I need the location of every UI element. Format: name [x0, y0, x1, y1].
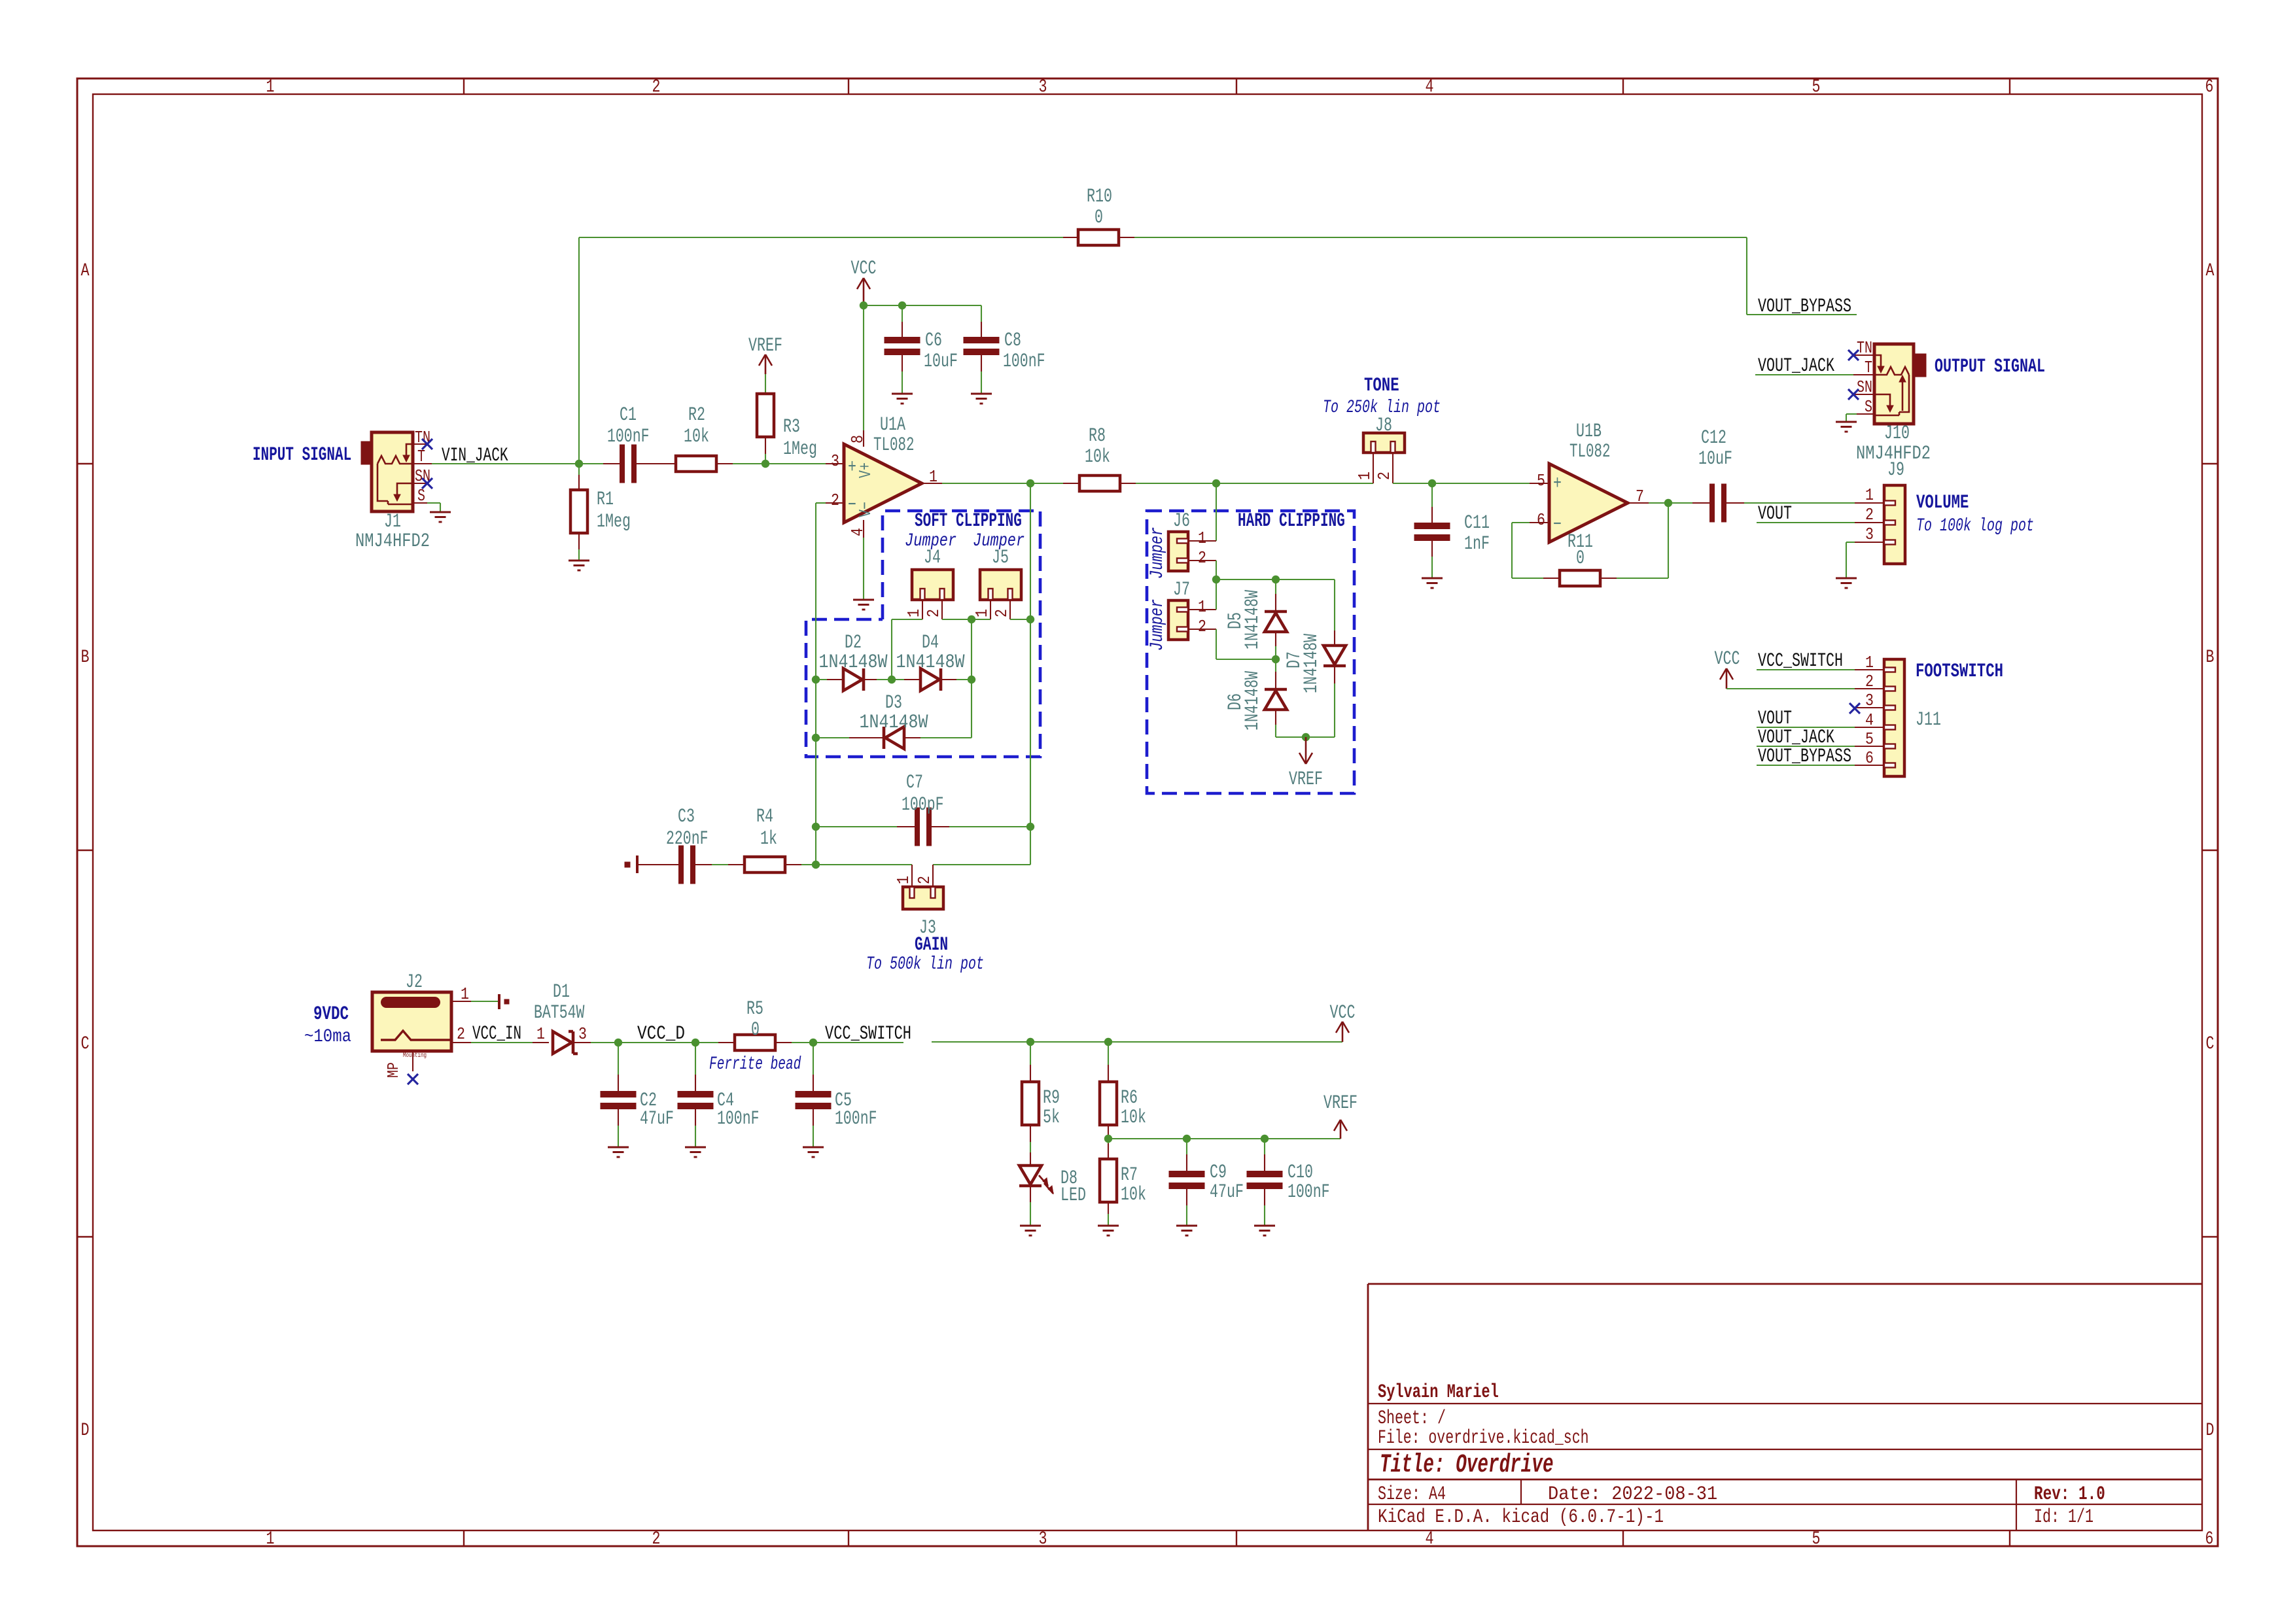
- wire R10 net top left: [579, 237, 1063, 238]
- wire J7.2 to D5/D6 mid: [1216, 629, 1217, 659]
- svg-text:R7: R7: [1121, 1164, 1138, 1186]
- resistor R11: [1543, 578, 1560, 579]
- wire VIN to R10 riser: [578, 237, 580, 464]
- junction C6 tap: [898, 302, 906, 309]
- wire J8.2 to U1B+: [1393, 483, 1530, 484]
- ground at C5: [803, 1147, 824, 1149]
- junction VCC stem: [860, 302, 867, 309]
- svg-text:R4: R4: [756, 806, 773, 828]
- svg-text:J1: J1: [384, 511, 401, 533]
- svg-text:47uF: 47uF: [1210, 1181, 1244, 1203]
- capacitor C4: [695, 1043, 696, 1075]
- svg-text:Title: Overdrive: Title: Overdrive: [1380, 1451, 1554, 1480]
- svg-text:1N4148W: 1N4148W: [860, 712, 928, 734]
- resistor R10: [1063, 237, 1078, 238]
- wire J7.1 up: [1216, 579, 1217, 610]
- wire J6.2 down: [1216, 561, 1217, 579]
- svg-text:VCC_SWITCH: VCC_SWITCH: [825, 1023, 911, 1045]
- wire VCC_SWITCH stub (J11.1): [1757, 669, 1855, 670]
- svg-text:6: 6: [1865, 748, 1874, 768]
- svg-text:5: 5: [1812, 1529, 1821, 1549]
- svg-text:5: 5: [1865, 729, 1874, 749]
- wire D2-D4 mid: [877, 679, 904, 680]
- junction C4 tap: [692, 1039, 699, 1046]
- svg-text:To 100k log pot: To 100k log pot: [1916, 516, 2034, 536]
- wire J1.S to ground: [427, 502, 440, 504]
- junction hard-clip tap: [1212, 479, 1220, 487]
- svg-text:2: 2: [992, 609, 1011, 617]
- svg-text:Size: A4: Size: A4: [1378, 1483, 1446, 1506]
- svg-text:D: D: [81, 1421, 90, 1441]
- wire VCC rail (LED/VREF): [932, 1041, 1342, 1043]
- svg-text:Mounting: Mounting: [403, 1052, 427, 1060]
- capacitor C9: [1186, 1139, 1187, 1154]
- resistor R3: [757, 394, 774, 437]
- junction R9 tap: [1026, 1038, 1034, 1046]
- svg-text:R1: R1: [597, 489, 614, 511]
- svg-text:1Meg: 1Meg: [597, 511, 631, 533]
- no-connect J11.3: [1849, 703, 1860, 714]
- svg-text:J6: J6: [1173, 510, 1190, 532]
- ground at C4: [685, 1147, 706, 1149]
- ground at C11: [1422, 578, 1443, 579]
- svg-text:VIN_JACK: VIN_JACK: [442, 445, 508, 467]
- J2 pin 1: [451, 1001, 471, 1002]
- svg-text:1N4148W: 1N4148W: [1242, 590, 1264, 649]
- wire J10.S to ground: [1846, 413, 1857, 415]
- wire U1A out: [942, 483, 1063, 484]
- svg-text:7: 7: [1636, 487, 1644, 506]
- capacitor C5: [813, 1043, 814, 1075]
- connector J11 (FOOTSWITCH): [1884, 659, 1904, 776]
- svg-text:0: 0: [751, 1019, 760, 1041]
- junction VIN_JACK node: [575, 460, 583, 468]
- J10 pin T: [1853, 374, 1874, 375]
- svg-text:1: 1: [266, 1529, 275, 1549]
- svg-text:3: 3: [1865, 525, 1874, 544]
- capacitor C8: [981, 322, 982, 337]
- ground at J9: [1836, 578, 1857, 579]
- svg-text:D4: D4: [922, 632, 939, 654]
- svg-text:Jumper: Jumper: [1147, 527, 1168, 579]
- svg-text:1N4148W: 1N4148W: [1242, 671, 1264, 731]
- ground at R7: [1098, 1225, 1119, 1227]
- svg-text:100nF: 100nF: [1003, 351, 1045, 373]
- svg-text:1Meg: 1Meg: [783, 438, 817, 460]
- svg-text:4: 4: [1426, 1529, 1434, 1549]
- svg-text:3: 3: [1039, 1529, 1047, 1549]
- LED D8: [1030, 1142, 1031, 1152]
- svg-text:R5: R5: [746, 998, 763, 1020]
- junction gain node: [812, 861, 820, 869]
- svg-text:T: T: [1865, 358, 1872, 377]
- svg-text:C9: C9: [1210, 1162, 1227, 1184]
- svg-text:2: 2: [1865, 505, 1874, 525]
- svg-text:~10ma: ~10ma: [304, 1027, 351, 1047]
- svg-text:Sylvain Mariel: Sylvain Mariel: [1378, 1381, 1499, 1404]
- wire VREF to R3: [765, 374, 766, 394]
- svg-text:S: S: [1865, 397, 1872, 417]
- svg-text:D: D: [2206, 1421, 2215, 1441]
- svg-text:NMJ4HFD2: NMJ4HFD2: [1856, 443, 1931, 465]
- wire J4.2 to D4 cathode: [942, 619, 972, 620]
- wire VOUT stub (J11.4): [1757, 727, 1855, 728]
- svg-text:J11: J11: [1916, 709, 1941, 731]
- svg-text:J10: J10: [1884, 423, 1910, 445]
- power symbol VREF (hard clipping): [1305, 737, 1307, 764]
- svg-text:2: 2: [1198, 617, 1206, 636]
- wire R10 net down to VOUT_BYPASS: [1746, 237, 1747, 315]
- svg-text:VOUT_BYPASS: VOUT_BYPASS: [1758, 746, 1851, 768]
- svg-text:SN: SN: [1857, 377, 1872, 397]
- resistor R8: [1063, 483, 1079, 484]
- wire right clip riser: [971, 619, 972, 738]
- wire J9.3 to ground: [1846, 542, 1855, 543]
- ground at C2: [608, 1147, 629, 1149]
- resistor R9: [1030, 1042, 1031, 1065]
- svg-text:B: B: [2206, 648, 2215, 668]
- svg-text:C1: C1: [620, 404, 637, 426]
- wire VCC to J11.2: [1726, 688, 1855, 689]
- svg-text:5: 5: [1537, 471, 1545, 491]
- capacitor C6: [902, 305, 903, 322]
- svg-text:1N4148W: 1N4148W: [896, 651, 965, 674]
- svg-text:A: A: [2206, 261, 2215, 281]
- svg-text:3: 3: [1039, 77, 1047, 97]
- svg-text:C6: C6: [925, 330, 942, 352]
- svg-text:2: 2: [831, 491, 839, 510]
- diode D3 (1N4148W): [816, 737, 849, 738]
- svg-text:1: 1: [1198, 528, 1206, 548]
- svg-text:10k: 10k: [684, 426, 709, 448]
- J2 mounting pin: [412, 1051, 413, 1071]
- ground at U1A pin4: [853, 599, 874, 601]
- resistor R2: [676, 456, 716, 472]
- wire D4 to right riser: [956, 679, 972, 680]
- svg-text:VREF: VREF: [1289, 769, 1323, 791]
- diode D7 (1N4148W): [1334, 579, 1335, 631]
- junction hard mid-left: [1212, 576, 1220, 583]
- svg-text:J7: J7: [1173, 579, 1190, 601]
- junction J5.1 node: [968, 615, 975, 623]
- svg-text:VCC_IN: VCC_IN: [472, 1023, 521, 1045]
- svg-text:MP: MP: [385, 1062, 403, 1078]
- wire J4.1 to D2-D4 node: [892, 619, 922, 620]
- capacitor C3: [636, 855, 639, 873]
- svg-text:1: 1: [266, 77, 275, 97]
- J10 pin S: [1857, 413, 1874, 415]
- wire VOUT_BYPASS stub: [1747, 314, 1857, 315]
- svg-text:1: 1: [929, 467, 937, 487]
- svg-text:10k: 10k: [1121, 1107, 1146, 1129]
- wire VOUT_BYPASS stub (J11.6): [1757, 765, 1855, 766]
- svg-text:LED: LED: [1060, 1184, 1086, 1207]
- wire R10 net top right: [1134, 237, 1747, 238]
- junction D5/D6 midpoint: [1272, 655, 1280, 663]
- svg-text:V−: V−: [856, 502, 875, 517]
- svg-text:R9: R9: [1043, 1087, 1060, 1109]
- svg-text:10uF: 10uF: [924, 351, 958, 373]
- junction U1A output node: [1026, 479, 1034, 487]
- svg-text:C8: C8: [1004, 330, 1021, 352]
- svg-text:2: 2: [1198, 548, 1206, 568]
- svg-text:6: 6: [2205, 1529, 2214, 1549]
- capacitor C2: [618, 1043, 619, 1075]
- svg-text:Date: 2022-08-31: Date: 2022-08-31: [1548, 1483, 1717, 1506]
- svg-text:100nF: 100nF: [717, 1108, 760, 1130]
- svg-text:2: 2: [1865, 672, 1874, 691]
- svg-text:FOOTSWITCH: FOOTSWITCH: [1916, 661, 2003, 683]
- wire U1A pin4 to ground: [863, 538, 864, 600]
- wire U1B out: [1649, 502, 1692, 504]
- wire C12 to J9 pin1: [1744, 502, 1855, 504]
- svg-text:1: 1: [972, 609, 992, 617]
- svg-text:2: 2: [652, 77, 661, 97]
- wire R8 to TONE J8 pin1: [1136, 483, 1373, 484]
- svg-text:+: +: [1553, 473, 1562, 495]
- svg-text:V+: V+: [856, 462, 875, 478]
- diode D1 (BAT54W): [533, 1042, 549, 1043]
- wire VCC_D rail: [591, 1042, 718, 1043]
- svg-text:T: T: [417, 447, 425, 466]
- capacitor C1: [603, 463, 620, 464]
- svg-text:5: 5: [1812, 77, 1821, 97]
- svg-text:Id: 1/1: Id: 1/1: [2034, 1506, 2094, 1529]
- J1 pin TN (NC): [413, 443, 427, 445]
- junction C7 right: [1026, 823, 1034, 831]
- svg-text:S: S: [417, 486, 425, 506]
- svg-text:U1A: U1A: [880, 414, 905, 436]
- J1 pin S: [413, 502, 427, 504]
- svg-text:A: A: [81, 261, 90, 281]
- svg-text:1: 1: [904, 609, 924, 617]
- svg-text:1N4148W: 1N4148W: [819, 651, 888, 674]
- junction D2/D4 midpoint: [888, 676, 896, 683]
- title block: [1368, 1283, 2202, 1285]
- ground at D8: [1020, 1225, 1041, 1227]
- svg-text:10k: 10k: [1121, 1184, 1146, 1206]
- svg-text:3: 3: [578, 1024, 587, 1044]
- connector J10 (output jack NMJ4HFD2): [1914, 354, 1925, 376]
- svg-text:VREF: VREF: [748, 335, 782, 357]
- wire VCC down to U1A pin8: [863, 305, 864, 430]
- wire VCC_SWITCH stub (power): [792, 1042, 903, 1043]
- svg-text:1: 1: [1865, 653, 1874, 672]
- svg-text:U1B: U1B: [1576, 421, 1602, 443]
- svg-text:R3: R3: [783, 416, 800, 438]
- svg-text:VREF: VREF: [1323, 1092, 1358, 1114]
- junction C11 tap: [1428, 479, 1436, 487]
- capacitor C7: [816, 826, 897, 827]
- ground at J1: [430, 511, 451, 513]
- ground at C8: [971, 393, 992, 395]
- svg-text:J5: J5: [992, 547, 1009, 569]
- svg-text:D1: D1: [553, 981, 570, 1003]
- capacitor C10: [1264, 1139, 1265, 1154]
- svg-text:0: 0: [1095, 207, 1103, 229]
- svg-text:3: 3: [831, 451, 839, 471]
- junction C9 tap: [1183, 1135, 1191, 1143]
- svg-text:1: 1: [1355, 472, 1375, 480]
- junction VREF tap (hard): [1302, 733, 1310, 741]
- junction node A (inv input): [812, 676, 820, 683]
- svg-text:3: 3: [1865, 691, 1874, 710]
- svg-text:VCC_SWITCH: VCC_SWITCH: [1758, 650, 1843, 672]
- svg-text:2: 2: [652, 1529, 661, 1549]
- wire VOUT_JACK stub: [1755, 374, 1853, 375]
- svg-text:B: B: [81, 648, 90, 668]
- junction C2 tap: [614, 1039, 622, 1046]
- svg-text:File: overdrive.kicad_sch: File: overdrive.kicad_sch: [1378, 1427, 1589, 1449]
- junction right clip riser: [968, 676, 975, 683]
- J10 pin SN (NC): [1853, 394, 1874, 395]
- op-amp U1B (TL082): [1549, 464, 1628, 542]
- wire VIN_JACK: [432, 463, 603, 464]
- svg-text:TL082: TL082: [873, 434, 915, 457]
- wire R11 to output: [1617, 578, 1668, 579]
- junction C7 left: [812, 823, 820, 831]
- svg-text:D3: D3: [885, 692, 902, 714]
- svg-text:KiCad E.D.A. kicad (6.0.7-1)-: KiCad E.D.A. kicad (6.0.7-1)-1: [1378, 1506, 1664, 1529]
- svg-text:GAIN: GAIN: [915, 934, 948, 956]
- svg-text:−: −: [1553, 514, 1562, 536]
- svg-text:BAT54W: BAT54W: [534, 1002, 584, 1024]
- svg-text:TONE: TONE: [1364, 375, 1399, 397]
- svg-text:9VDC: 9VDC: [313, 1003, 349, 1026]
- svg-text:1: 1: [1865, 485, 1874, 505]
- svg-text:5k: 5k: [1043, 1107, 1060, 1129]
- ground at J10: [1836, 421, 1857, 423]
- svg-text:Jumper: Jumper: [1147, 599, 1168, 651]
- svg-text:1: 1: [461, 984, 469, 1004]
- svg-text:4: 4: [1426, 77, 1434, 97]
- svg-text:R10: R10: [1087, 186, 1112, 208]
- svg-text:VOUT_JACK: VOUT_JACK: [1758, 355, 1834, 377]
- soft clipping dashed box: [806, 511, 1040, 757]
- svg-text:100nF: 100nF: [835, 1108, 877, 1130]
- ground at R1: [569, 560, 589, 562]
- svg-text:VCC: VCC: [1715, 648, 1740, 670]
- svg-text:1: 1: [894, 876, 913, 884]
- diode D4 (1N4148W): [904, 679, 920, 680]
- svg-text:VCC_D: VCC_D: [637, 1023, 685, 1045]
- wire VOUT stub (J9.2): [1757, 522, 1855, 523]
- svg-text:100nF: 100nF: [607, 426, 650, 448]
- svg-text:4: 4: [848, 528, 867, 536]
- wire R2 to U1A+: [733, 463, 826, 464]
- J10 pin TN (NC): [1853, 354, 1874, 356]
- svg-text:Ferrite bead: Ferrite bead: [709, 1054, 801, 1075]
- svg-text:NMJ4HFD2: NMJ4HFD2: [355, 530, 430, 553]
- svg-text:VCC: VCC: [851, 258, 877, 280]
- op-amp U1A (TL082): [844, 444, 922, 523]
- svg-text:To 500k lin pot: To 500k lin pot: [866, 954, 984, 975]
- svg-text:6: 6: [2205, 77, 2214, 97]
- svg-text:TN: TN: [1857, 338, 1872, 358]
- svg-text:100nF: 100nF: [1288, 1181, 1330, 1203]
- svg-text:2: 2: [457, 1024, 465, 1044]
- ground at C10: [1254, 1225, 1275, 1227]
- svg-text:C: C: [81, 1034, 90, 1054]
- svg-text:47uF: 47uF: [640, 1108, 674, 1130]
- capacitor C11: [1431, 483, 1433, 507]
- diode D6 (1N4148W): [1275, 659, 1276, 672]
- wire VCC rail: [864, 305, 981, 306]
- wire J5.1 segment: [972, 619, 990, 620]
- svg-text:R6: R6: [1121, 1087, 1138, 1109]
- svg-text:100pF: 100pF: [902, 794, 944, 816]
- svg-text:10k: 10k: [1085, 446, 1110, 468]
- svg-text:INPUT SIGNAL: INPUT SIGNAL: [253, 444, 351, 466]
- junction VREF node: [1104, 1135, 1112, 1143]
- svg-text:C7: C7: [906, 772, 923, 794]
- ground at C9: [1176, 1225, 1197, 1227]
- svg-text:1: 1: [1198, 597, 1206, 617]
- svg-text:R2: R2: [688, 404, 705, 426]
- svg-text:4: 4: [1865, 710, 1874, 730]
- diode D5 (1N4148W): [1275, 579, 1276, 594]
- jumper J3 (GAIN): [911, 865, 913, 887]
- wire inv input of U1A: [816, 502, 826, 504]
- svg-text:Sheet: /: Sheet: /: [1378, 1408, 1446, 1430]
- svg-text:Rev: 1.0: Rev: 1.0: [2034, 1483, 2105, 1506]
- svg-text:C12: C12: [1701, 427, 1726, 449]
- diode D2 (1N4148W): [816, 679, 827, 680]
- junction C10 tap: [1261, 1135, 1269, 1143]
- wire VREF rail: [1108, 1138, 1340, 1139]
- svg-text:J4: J4: [924, 547, 941, 569]
- wire VCC_IN: [471, 1042, 533, 1043]
- junction D5 top: [1272, 576, 1280, 583]
- svg-text:C3: C3: [678, 806, 695, 828]
- svg-text:OUTPUT SIGNAL: OUTPUT SIGNAL: [1935, 356, 2045, 378]
- svg-text:1nF: 1nF: [1464, 533, 1490, 555]
- wire C3 to R4: [712, 864, 728, 865]
- svg-text:6: 6: [1537, 510, 1545, 530]
- J1 pin T: [413, 463, 432, 464]
- svg-text:TL082: TL082: [1569, 441, 1611, 463]
- svg-text:VCC: VCC: [1330, 1002, 1356, 1024]
- wire VCC to C8: [981, 305, 982, 322]
- ground at C6: [892, 393, 913, 395]
- svg-text:SOFT CLIPPING: SOFT CLIPPING: [915, 510, 1022, 532]
- svg-text:0: 0: [1576, 547, 1585, 570]
- svg-text:8: 8: [848, 435, 867, 443]
- svg-text:VOLUME: VOLUME: [1916, 492, 1969, 514]
- svg-text:2: 2: [1375, 472, 1394, 480]
- wire U1B pin6 loop: [1512, 522, 1530, 523]
- resistor R4: [728, 864, 745, 865]
- wire gain node to J3 pin1: [816, 864, 912, 865]
- svg-text:R8: R8: [1089, 425, 1106, 447]
- resistor R1: [578, 464, 580, 475]
- hard clipping dashed box: [1147, 511, 1354, 793]
- svg-text:1N4148W: 1N4148W: [1301, 634, 1323, 693]
- connector J1 (input jack NMJ4HFD2): [362, 442, 374, 464]
- svg-text:VOUT_BYPASS: VOUT_BYPASS: [1758, 296, 1851, 318]
- J1 pin SN (NC): [413, 483, 427, 484]
- resistor R7: [1108, 1139, 1109, 1143]
- svg-text:HARD CLIPPING: HARD CLIPPING: [1238, 510, 1345, 532]
- wire hard top rail: [1216, 579, 1335, 580]
- J2 pin 2 (VCC_IN): [451, 1042, 471, 1043]
- svg-text:1k: 1k: [760, 828, 777, 850]
- wire output riser: [1030, 483, 1031, 865]
- svg-text:VOUT: VOUT: [1758, 503, 1792, 525]
- svg-text:D2: D2: [845, 632, 862, 654]
- wire hard bottom rail: [1276, 736, 1335, 738]
- junction R6 tap: [1104, 1038, 1112, 1046]
